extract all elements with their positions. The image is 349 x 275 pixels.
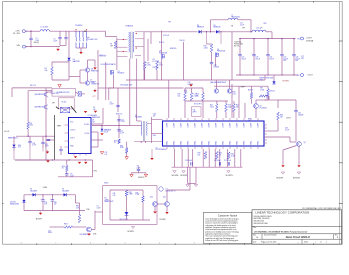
svg-text:C22: C22 bbox=[241, 57, 244, 59]
svg-text:1uF: 1uF bbox=[93, 109, 96, 111]
svg-text:22uF: 22uF bbox=[36, 40, 40, 42]
svg-text:OPT: OPT bbox=[301, 58, 304, 60]
svg-text:R8d: R8d bbox=[18, 145, 21, 147]
svg-text:4.7k: 4.7k bbox=[113, 195, 116, 197]
svg-text:COMP: COMP bbox=[174, 123, 176, 128]
svg-text:MUR120: MUR120 bbox=[170, 48, 176, 50]
svg-text:D3 Z5W: D3 Z5W bbox=[10, 202, 16, 204]
svg-text:C8: C8 bbox=[93, 107, 95, 109]
svg-text:5: 5 bbox=[125, 243, 126, 245]
svg-text:1: 1 bbox=[315, 241, 316, 243]
svg-text:C26: C26 bbox=[295, 57, 298, 59]
svg-text:1N4148W: 1N4148W bbox=[62, 190, 69, 192]
svg-text:(OPT): (OPT) bbox=[193, 111, 198, 113]
svg-text:C25: C25 bbox=[283, 57, 286, 59]
svg-text:R8d: R8d bbox=[120, 145, 123, 147]
svg-text:+: + bbox=[40, 198, 41, 200]
svg-text:1uF: 1uF bbox=[92, 121, 95, 123]
svg-text:TP4: TP4 bbox=[297, 75, 300, 77]
svg-text:121k: 121k bbox=[30, 125, 34, 127]
svg-text:COMP: COMP bbox=[223, 123, 225, 128]
svg-text:C14: C14 bbox=[120, 131, 123, 133]
svg-text:D4: D4 bbox=[30, 189, 32, 191]
svg-text:T1 PA0810: T1 PA0810 bbox=[125, 24, 133, 27]
svg-text:Q5d FMMT619: Q5d FMMT619 bbox=[34, 94, 44, 96]
svg-text:0.1uF: 0.1uF bbox=[285, 129, 289, 131]
svg-text:C06 0.1uF: C06 0.1uF bbox=[99, 56, 106, 58]
svg-text:4.7k: 4.7k bbox=[266, 97, 269, 99]
svg-text:C3: C3 bbox=[97, 206, 99, 208]
svg-text:150uF: 150uF bbox=[295, 58, 299, 60]
svg-text:C27: C27 bbox=[301, 56, 304, 58]
svg-text:TP10: TP10 bbox=[94, 170, 98, 172]
svg-text:PO-IN+: PO-IN+ bbox=[84, 124, 89, 126]
svg-text:VREF: VREF bbox=[241, 86, 245, 88]
svg-text:10R: 10R bbox=[110, 46, 113, 48]
svg-text:4.7K: 4.7K bbox=[76, 207, 79, 209]
svg-text:R25: R25 bbox=[219, 153, 222, 155]
svg-text:C3d: C3d bbox=[48, 230, 51, 232]
svg-text:D5: D5 bbox=[62, 189, 64, 191]
svg-text:C23: C23 bbox=[255, 57, 258, 59]
svg-text:12V/8.4A: 12V/8.4A bbox=[306, 40, 314, 43]
svg-text:1K: 1K bbox=[114, 142, 116, 144]
svg-text:C30: C30 bbox=[54, 202, 57, 204]
svg-text:7.5K: 7.5K bbox=[260, 79, 263, 81]
svg-text:VREF: VREF bbox=[57, 125, 61, 127]
svg-text:3: 3 bbox=[194, 243, 195, 245]
svg-text:1: 1 bbox=[326, 241, 327, 243]
svg-text:C24: C24 bbox=[269, 57, 272, 59]
svg-text:8: 8 bbox=[21, 243, 22, 245]
svg-text:LT-VCC: LT-VCC bbox=[70, 130, 76, 132]
svg-text:R44: R44 bbox=[136, 192, 139, 194]
svg-text:10k: 10k bbox=[178, 95, 181, 97]
svg-text:1.24K: 1.24K bbox=[136, 194, 140, 196]
svg-text:C36: C36 bbox=[113, 193, 116, 195]
svg-text:C29: C29 bbox=[45, 144, 48, 146]
svg-text:R21: R21 bbox=[210, 105, 213, 107]
svg-text:0.1uF: 0.1uF bbox=[97, 207, 101, 209]
svg-text:Demo Circuit 1266A-B: Demo Circuit 1266A-B bbox=[286, 236, 310, 239]
svg-text:R33: R33 bbox=[248, 119, 251, 121]
svg-text:R6: R6 bbox=[30, 123, 32, 125]
svg-text:BAV21W: BAV21W bbox=[73, 60, 80, 63]
svg-text:VB: VB bbox=[231, 25, 233, 27]
svg-text:100: 100 bbox=[198, 154, 201, 156]
svg-text:R19: R19 bbox=[178, 94, 181, 96]
svg-text:C19: C19 bbox=[188, 82, 191, 84]
svg-text:Customer Notice: Customer Notice bbox=[218, 214, 238, 218]
svg-text:-VOUT: -VOUT bbox=[286, 117, 291, 119]
svg-text:COMP: COMP bbox=[202, 123, 204, 128]
svg-text:PE-68386: PE-68386 bbox=[135, 117, 142, 119]
svg-text:R31: R31 bbox=[266, 96, 269, 98]
svg-text:64.9K: 64.9K bbox=[120, 147, 124, 149]
svg-text:LINEAR TECHNOLOGY CORPORATION: LINEAR TECHNOLOGY CORPORATION bbox=[255, 210, 309, 214]
svg-text:C13: C13 bbox=[121, 119, 124, 121]
svg-text:C16 2.2nF: C16 2.2nF bbox=[185, 160, 192, 162]
svg-text:MOUNTN: MOUNTN bbox=[226, 175, 233, 177]
svg-text:10k: 10k bbox=[236, 106, 239, 108]
svg-text:TP1: TP1 bbox=[297, 38, 300, 40]
svg-text:COMP: COMP bbox=[258, 123, 260, 128]
svg-text:COMP: COMP bbox=[251, 123, 253, 128]
svg-text:1uF: 1uF bbox=[105, 154, 108, 156]
svg-text:+VOUT: +VOUT bbox=[306, 38, 313, 40]
svg-text:C9: C9 bbox=[110, 102, 112, 104]
svg-text:MTGJPN: MTGJPN bbox=[36, 219, 42, 221]
svg-text:4: 4 bbox=[159, 243, 160, 245]
svg-text:R7d: R7d bbox=[114, 140, 117, 142]
svg-text:C28: C28 bbox=[214, 65, 217, 67]
svg-text:C35: C35 bbox=[285, 128, 288, 130]
svg-text:10k: 10k bbox=[248, 120, 251, 122]
svg-text:+: + bbox=[50, 198, 51, 200]
svg-text:R39: R39 bbox=[129, 192, 132, 194]
svg-text:T3 B0810: T3 B0810 bbox=[75, 25, 82, 27]
svg-text:R10: R10 bbox=[147, 63, 150, 65]
svg-text:D9: D9 bbox=[214, 25, 216, 27]
svg-text:L1 3.3uH: L1 3.3uH bbox=[41, 26, 49, 28]
svg-text:1000pF: 1000pF bbox=[298, 114, 303, 116]
svg-text:C15 33pF: C15 33pF bbox=[214, 160, 221, 162]
svg-text:C17 0.1uF: C17 0.1uF bbox=[224, 160, 231, 162]
svg-text:COMP: COMP bbox=[181, 123, 183, 128]
svg-text:MTGJPN: MTGJPN bbox=[283, 81, 289, 83]
svg-text:R36 BOTTOM SIDE: R36 BOTTOM SIDE bbox=[260, 78, 273, 80]
svg-text:MBRS140: MBRS140 bbox=[197, 27, 204, 29]
svg-text:6.8nF: 6.8nF bbox=[48, 232, 52, 234]
svg-text:1N4148W: 1N4148W bbox=[30, 190, 37, 192]
svg-text:MOUNTC: MOUNTC bbox=[138, 177, 144, 179]
svg-text:-VOUT: -VOUT bbox=[307, 75, 314, 77]
svg-text:PO-IN-: PO-IN- bbox=[85, 133, 90, 135]
svg-text:OPT: OPT bbox=[242, 27, 245, 29]
svg-text:C29: C29 bbox=[44, 202, 47, 204]
svg-text:MMSZ5248B: MMSZ5248B bbox=[10, 203, 19, 205]
svg-text:R17 (OPT): R17 (OPT) bbox=[194, 103, 202, 105]
svg-text:Q5 FMMT619 (OPT): Q5 FMMT619 (OPT) bbox=[57, 92, 71, 94]
svg-text:MOUNTB: MOUNTB bbox=[172, 175, 179, 177]
svg-text:150uF: 150uF bbox=[255, 58, 259, 60]
svg-text:COMP: COMP bbox=[209, 123, 211, 128]
svg-text:TP2: TP2 bbox=[168, 22, 171, 24]
svg-text:408-434-0507 FAX: 408-434-0507 FAX bbox=[254, 222, 269, 225]
svg-text:9V - 36V: 9V - 36V bbox=[13, 33, 21, 35]
svg-text:LTC3901: LTC3901 bbox=[153, 61, 160, 63]
svg-text:R18: R18 bbox=[204, 46, 207, 48]
svg-text:C12 1uF: C12 1uF bbox=[163, 35, 169, 37]
svg-text:R13: R13 bbox=[62, 166, 65, 168]
svg-text:MTGJPN: MTGJPN bbox=[160, 219, 166, 221]
svg-text:33.2k: 33.2k bbox=[210, 106, 214, 108]
svg-text:C21: C21 bbox=[240, 23, 243, 25]
svg-text:COMP: COMP bbox=[188, 123, 190, 128]
svg-text:C2: C2 bbox=[54, 39, 56, 41]
svg-text:1uF: 1uF bbox=[54, 204, 57, 206]
svg-text:0.1uF: 0.1uF bbox=[104, 131, 108, 133]
svg-text:MMBT3904T: MMBT3904T bbox=[105, 201, 114, 203]
svg-text:C9d 1000pF 200V: C9d 1000pF 200V bbox=[120, 85, 132, 87]
svg-text:150uF: 150uF bbox=[283, 58, 287, 60]
svg-text:150uF: 150uF bbox=[269, 58, 273, 60]
svg-text:6: 6 bbox=[90, 243, 91, 245]
svg-text:LTC3723EGN-1: LTC3723EGN-1 bbox=[156, 149, 167, 151]
svg-text:MOUNTN: MOUNTN bbox=[128, 231, 134, 233]
svg-text:MOUNTN: MOUNTN bbox=[293, 178, 300, 180]
svg-text:R5 100: R5 100 bbox=[62, 102, 67, 104]
svg-text:L3 0.4uH: L3 0.4uH bbox=[256, 27, 262, 29]
svg-text:FMMT619: FMMT619 bbox=[91, 70, 99, 72]
svg-text:COMP: COMP bbox=[244, 123, 246, 128]
svg-text:R37: R37 bbox=[260, 88, 263, 90]
svg-text:R24: R24 bbox=[184, 90, 187, 92]
svg-text:C7k: C7k bbox=[105, 152, 108, 154]
svg-text:R13 1K: R13 1K bbox=[153, 67, 159, 69]
svg-text:MBRS140: MBRS140 bbox=[214, 27, 221, 29]
svg-text:Vb 4.7k: Vb 4.7k bbox=[4, 131, 9, 133]
svg-text:C8: C8 bbox=[92, 120, 94, 122]
svg-text:OPT: OPT bbox=[52, 102, 55, 104]
svg-text:R1: R1 bbox=[110, 43, 112, 45]
svg-text:R3 2.7k: R3 2.7k bbox=[30, 85, 36, 87]
svg-text:2.2uF: 2.2uF bbox=[240, 24, 244, 26]
svg-text:Q7: Q7 bbox=[260, 106, 262, 108]
svg-text:4.7nF: 4.7nF bbox=[32, 145, 36, 147]
svg-text:COMP: COMP bbox=[237, 123, 239, 128]
svg-text:150uF: 150uF bbox=[241, 58, 245, 60]
svg-text:R35: R35 bbox=[264, 23, 267, 25]
svg-text:4.7uF: 4.7uF bbox=[120, 132, 124, 134]
svg-text:R22: R22 bbox=[236, 105, 239, 107]
svg-text:R30 1k: R30 1k bbox=[270, 90, 275, 92]
svg-text:1.0uF: 1.0uF bbox=[159, 64, 163, 66]
svg-text:R9d: R9d bbox=[76, 206, 79, 208]
svg-text:1uF: 1uF bbox=[44, 204, 47, 206]
svg-text:R9 47: R9 47 bbox=[64, 224, 68, 226]
svg-text:Size: Size bbox=[253, 235, 256, 237]
svg-text:R29 2k: R29 2k bbox=[248, 89, 253, 91]
svg-text:COMP: COMP bbox=[167, 123, 169, 128]
svg-text:Q11: Q11 bbox=[163, 197, 166, 199]
svg-text:OPT: OPT bbox=[93, 96, 96, 98]
svg-text:MOUNTP: MOUNTP bbox=[277, 178, 284, 180]
svg-text:VCBM: VCBM bbox=[43, 187, 48, 189]
svg-text:L2: L2 bbox=[231, 14, 233, 16]
svg-text:47uF: 47uF bbox=[121, 121, 124, 123]
svg-text:4.7uF: 4.7uF bbox=[45, 146, 49, 148]
svg-text:U6: U6 bbox=[105, 198, 107, 200]
svg-text:1000pF: 1000pF bbox=[214, 67, 219, 69]
svg-text:LTC3723MSE, LTC3723EGN 9V-36V: LTC3723MSE, LTC3723EGN 9V-36Vin Forward … bbox=[254, 230, 308, 233]
svg-text:C28: C28 bbox=[32, 143, 35, 145]
svg-text:Q6d FMMT718: Q6d FMMT718 bbox=[34, 107, 44, 109]
svg-text:R 0.0805, 30V: R 0.0805, 30V bbox=[87, 39, 98, 41]
svg-text:463 46Q: 463 46Q bbox=[34, 42, 40, 44]
svg-text:MMBT3906LT1: MMBT3906LT1 bbox=[8, 137, 18, 139]
svg-text:COMP: COMP bbox=[216, 123, 218, 128]
svg-text:10k: 10k bbox=[196, 95, 199, 97]
svg-text:R26: R26 bbox=[198, 153, 201, 155]
svg-text:C14: C14 bbox=[193, 110, 196, 112]
svg-text:R11a: R11a bbox=[153, 135, 157, 137]
svg-text:C1: C1 bbox=[36, 38, 38, 40]
svg-text:R23: R23 bbox=[233, 92, 236, 94]
svg-text:U1: U1 bbox=[156, 147, 158, 149]
svg-text:R16 10: R16 10 bbox=[180, 40, 185, 42]
svg-text:Q10: Q10 bbox=[150, 197, 153, 199]
svg-text:MOUNTP: MOUNTP bbox=[181, 175, 188, 177]
svg-text:4.7k: 4.7k bbox=[18, 147, 21, 149]
svg-text:R14 10: R14 10 bbox=[159, 42, 164, 44]
svg-text:1500pF: 1500pF bbox=[90, 81, 96, 83]
svg-text:FDS3672: FDS3672 bbox=[118, 73, 125, 75]
svg-text:LTC4440ES6: LTC4440ES6 bbox=[88, 115, 97, 117]
svg-text:Friday, June 03, 2005: Friday, June 03, 2005 bbox=[261, 241, 276, 243]
svg-text:PICKED 10ML: PICKED 10ML bbox=[234, 44, 243, 46]
svg-text:7: 7 bbox=[55, 243, 56, 245]
svg-text:COMP: COMP bbox=[230, 123, 232, 128]
svg-text:MMBT3904T: MMBT3904T bbox=[92, 117, 100, 119]
svg-text:10k: 10k bbox=[45, 70, 48, 72]
svg-text:C18: C18 bbox=[228, 105, 231, 107]
svg-text:TL2d P0.05: TL2d P0.05 bbox=[234, 42, 241, 44]
svg-text:22uF: 22uF bbox=[54, 40, 58, 42]
svg-text:4.7nF: 4.7nF bbox=[110, 104, 114, 106]
svg-text:C34: C34 bbox=[298, 113, 301, 115]
svg-text:VGB: VGB bbox=[93, 233, 96, 235]
svg-text:R20: R20 bbox=[196, 94, 199, 96]
svg-text:4.02K: 4.02K bbox=[260, 89, 264, 91]
svg-text:Vin: Vin bbox=[87, 37, 89, 39]
svg-text:Q4: Q4 bbox=[217, 49, 219, 51]
svg-text:COMP: COMP bbox=[195, 123, 197, 128]
svg-text:Q3: Q3 bbox=[159, 51, 161, 53]
svg-text:R28: R28 bbox=[231, 154, 234, 156]
svg-text:M2 COIL: M2 COIL bbox=[234, 46, 240, 48]
svg-text:C11d: C11d bbox=[153, 114, 157, 116]
svg-text:1K: 1K bbox=[62, 168, 64, 170]
svg-text:Q9: Q9 bbox=[304, 142, 306, 144]
svg-text:+VIN: +VIN bbox=[15, 30, 20, 32]
svg-text:D8: D8 bbox=[197, 25, 199, 27]
svg-text:OUT-T: OUT-T bbox=[70, 138, 75, 140]
svg-text:1uF: 1uF bbox=[153, 115, 156, 117]
svg-text:Q1: Q1 bbox=[118, 71, 120, 73]
svg-text:C7a: C7a bbox=[70, 174, 73, 176]
